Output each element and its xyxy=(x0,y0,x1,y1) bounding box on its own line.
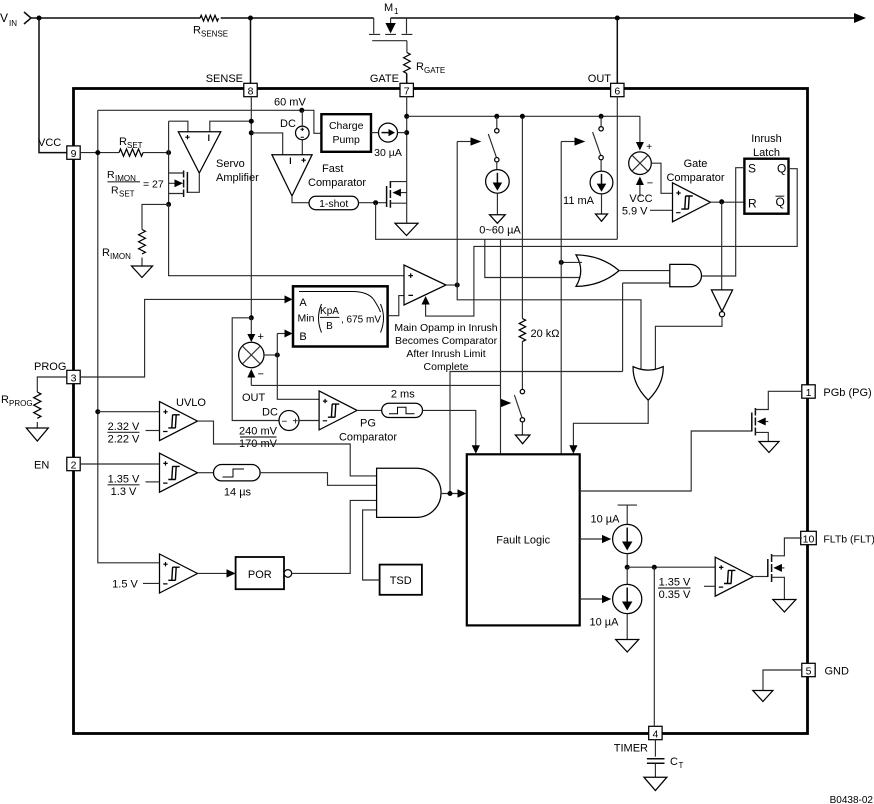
wire AND1 out to fault logic xyxy=(441,489,466,497)
and-gate AND2 xyxy=(670,264,702,286)
svg-text:R: R xyxy=(119,136,127,148)
node junction rail/sw1 xyxy=(494,114,499,119)
wire B input arrow xyxy=(277,330,292,338)
wire fast comparator out to 1-shot xyxy=(292,196,309,203)
ground GND pin xyxy=(753,691,773,702)
node junction SENSE/X1 xyxy=(249,315,254,320)
svg-text:DC: DC xyxy=(262,407,278,419)
and-gate AND1 enable xyxy=(377,468,441,517)
svg-text:10 µA: 10 µA xyxy=(591,514,621,526)
svg-text:V: V xyxy=(0,11,8,25)
svg-text:EN: EN xyxy=(34,460,49,472)
node junction SENSE/fastcomp tap xyxy=(249,130,254,135)
svg-text:B0438-02: B0438-02 xyxy=(830,795,874,804)
block TSD xyxy=(380,565,422,595)
svg-text:Min: Min xyxy=(298,313,315,325)
svg-text:R: R xyxy=(102,247,110,259)
svg-text:240 mV: 240 mV xyxy=(239,426,278,438)
svg-text:PROG: PROG xyxy=(9,399,33,408)
pin 5 GND xyxy=(802,663,849,677)
wire rail into X2 xyxy=(636,116,652,153)
wire 2ms out to fault logic xyxy=(423,410,480,453)
wire servo node to main opamp plus xyxy=(169,204,404,275)
or-gate OR2 xyxy=(576,255,619,287)
pin 10 FLTb xyxy=(801,531,874,545)
svg-text:GATE: GATE xyxy=(424,66,445,75)
svg-text:−: − xyxy=(647,178,653,190)
source 0-60uA current xyxy=(486,162,510,215)
node junction OUT top xyxy=(615,16,620,21)
wire EN out xyxy=(198,472,214,474)
svg-text:6: 6 xyxy=(614,85,620,97)
node junction SENSE/servo tap xyxy=(249,119,254,124)
svg-text:S: S xyxy=(748,162,756,176)
svg-text:1: 1 xyxy=(394,7,399,16)
svg-text:60 mV: 60 mV xyxy=(274,97,306,109)
svg-text:Servo: Servo xyxy=(216,158,245,170)
wire OR2 top input xyxy=(561,261,582,263)
resistor RSET xyxy=(80,136,168,156)
svg-text:TSD: TSD xyxy=(390,575,412,587)
svg-text:B: B xyxy=(299,331,306,343)
svg-text:7: 7 xyxy=(404,85,410,97)
pin 7 GATE xyxy=(370,73,414,97)
wire POR to AND1 xyxy=(292,500,377,573)
wire PG out to 2ms xyxy=(357,409,382,411)
svg-text:2.22 V: 2.22 V xyxy=(108,434,140,446)
svg-text:GND: GND xyxy=(825,666,850,678)
or-gate OR3 down xyxy=(633,367,663,401)
wire PROG to A input xyxy=(80,295,292,377)
svg-text:0.35 V: 0.35 V xyxy=(659,589,691,601)
svg-text:Comparator: Comparator xyxy=(666,172,724,184)
svg-text:, 675 mV: , 675 mV xyxy=(341,315,381,326)
one-shot 2ms xyxy=(382,389,423,418)
wire POR comp out arrow xyxy=(198,569,236,577)
wire FL out to PGb FET gate xyxy=(580,431,752,491)
block charge pump xyxy=(321,114,378,152)
svg-text:FLTb (FLT): FLTb (FLT) xyxy=(823,534,874,546)
wire 11mA ctl vertical xyxy=(560,142,562,455)
source 10uA charge xyxy=(591,505,642,567)
transistor PGb FET xyxy=(752,391,802,441)
svg-text:M: M xyxy=(384,2,393,14)
resistor RSENSE xyxy=(193,15,228,38)
svg-text:Latch: Latch xyxy=(753,147,780,159)
wire FL to 10uA top arrow xyxy=(580,535,612,543)
svg-text:1: 1 xyxy=(806,387,812,399)
node junction GATE/30uA xyxy=(404,130,409,135)
wire AND2 bottom input riser xyxy=(623,283,670,372)
wire M1 gate to RGATE xyxy=(406,41,408,53)
transistor servo mirror FET xyxy=(169,171,188,198)
IC boundary box xyxy=(74,89,808,734)
svg-text:Q: Q xyxy=(777,162,786,176)
svg-text:Main Opamp in Inrush: Main Opamp in Inrush xyxy=(394,322,497,334)
svg-text:C: C xyxy=(670,756,678,768)
wire gate drive rail xyxy=(407,115,640,117)
source DC offset 60mV xyxy=(280,110,309,154)
ground FLT FET xyxy=(773,600,796,613)
wire OR2 out to AND2 xyxy=(619,270,670,272)
footer code B0438-02 xyxy=(830,795,874,804)
one-shot 1-shot block xyxy=(309,196,387,210)
ground 20k switch xyxy=(515,435,530,444)
source 11mA current xyxy=(563,160,613,214)
svg-text:Inrush: Inrush xyxy=(751,133,782,145)
svg-text:Fast: Fast xyxy=(322,163,343,175)
wire B riser xyxy=(277,334,319,400)
svg-text:R: R xyxy=(1,394,9,406)
wire X1 out to B node xyxy=(264,354,277,356)
svg-text:1.3 V: 1.3 V xyxy=(111,486,137,498)
block fault logic xyxy=(467,454,580,625)
ground 0-60uA xyxy=(490,215,506,224)
latch inrush latch xyxy=(744,133,788,214)
svg-text:−: − xyxy=(258,369,264,381)
svg-text:GATE: GATE xyxy=(370,73,399,85)
pin 4 TIMER xyxy=(614,726,662,754)
svg-text:IN: IN xyxy=(9,19,17,28)
ground 11mA xyxy=(596,214,608,221)
switch inrush 0-60uA xyxy=(488,116,499,162)
svg-text:2: 2 xyxy=(71,459,77,471)
svg-text:Gate: Gate xyxy=(684,158,708,170)
svg-text:+: + xyxy=(293,417,299,428)
node junction DC tap xyxy=(299,108,304,113)
comparator gate comparator xyxy=(666,158,724,222)
wire SENSE vertical xyxy=(250,97,252,318)
svg-text:TIMER: TIMER xyxy=(614,743,648,755)
svg-text:0~60 µA: 0~60 µA xyxy=(479,225,521,237)
one-shot 14us xyxy=(214,465,261,499)
ground 10uA discharge xyxy=(616,640,639,653)
op-amp main opamp xyxy=(404,265,446,305)
svg-text:4: 4 xyxy=(652,728,658,740)
wire EN input xyxy=(80,463,159,465)
svg-text:R: R xyxy=(193,25,201,37)
svg-text:SENSE: SENSE xyxy=(206,73,243,85)
label PG thresholds 240/170 xyxy=(239,426,278,451)
svg-text:20 kΩ: 20 kΩ xyxy=(531,328,560,340)
op-amp servo amplifier xyxy=(178,132,259,184)
svg-text:2.32 V: 2.32 V xyxy=(108,421,140,433)
ground PGb FET xyxy=(759,442,779,453)
comparator POR 1.5V xyxy=(160,554,198,593)
wire UVLO out to AND1 xyxy=(198,421,377,476)
svg-text:T: T xyxy=(679,761,684,770)
svg-text:PGb (PG): PGb (PG) xyxy=(823,387,871,399)
svg-text:Comparator: Comparator xyxy=(308,177,366,189)
node junction VCC/RSET xyxy=(95,150,100,155)
transistor M1 xyxy=(369,2,412,41)
svg-text:Charge: Charge xyxy=(329,120,364,132)
wire opamp out xyxy=(446,284,457,286)
comparator PG xyxy=(319,391,397,444)
wire GATE pin vertical xyxy=(406,97,408,182)
svg-text:DC: DC xyxy=(280,118,296,130)
ground discharge FET xyxy=(395,223,418,235)
svg-text:11 mA: 11 mA xyxy=(563,195,595,207)
label UVLO thresholds xyxy=(108,421,160,446)
svg-text:+: + xyxy=(258,331,264,343)
node junction RSET/servo xyxy=(166,150,171,155)
svg-text:R: R xyxy=(416,61,424,73)
svg-text:Comparator: Comparator xyxy=(339,432,397,444)
svg-text:2 ms: 2 ms xyxy=(391,389,415,401)
resistor RGATE xyxy=(404,53,446,84)
node junction 1-shot/gate xyxy=(373,200,378,205)
block POR xyxy=(236,557,292,589)
node junction gatecomp out xyxy=(719,199,724,204)
svg-text:8: 8 xyxy=(248,85,254,97)
svg-text:After Inrush Limit: After Inrush Limit xyxy=(406,348,485,360)
ground RPROG xyxy=(26,428,48,441)
pin 2 EN xyxy=(34,457,80,471)
svg-text:OUT: OUT xyxy=(588,73,612,85)
svg-text:10: 10 xyxy=(803,533,815,545)
node junction VCC/UVLO tap xyxy=(95,409,100,414)
svg-text:Amplifier: Amplifier xyxy=(216,172,259,184)
wire 14us out to AND1 xyxy=(260,473,377,486)
wire gate comparator out to latch R xyxy=(709,201,744,203)
source DC offset PG xyxy=(262,407,319,431)
block min limit xyxy=(293,286,388,346)
svg-text:POR: POR xyxy=(248,569,272,581)
wire opamp ctl to sw1 arrow xyxy=(457,137,481,145)
wire fast comparator I input xyxy=(251,133,282,155)
wire OUT sense line xyxy=(242,385,501,404)
multiplier X2 xyxy=(629,152,652,175)
svg-text:1.5 V: 1.5 V xyxy=(112,579,138,591)
node junction opamp out xyxy=(455,283,460,288)
node junction timer/pin4 xyxy=(652,565,657,570)
wire timer to pin4 xyxy=(653,567,655,726)
wire TSD to AND1 xyxy=(363,510,380,580)
node junction OR2 top/FL ctl xyxy=(559,260,564,265)
svg-text:UVLO: UVLO xyxy=(176,397,206,409)
wire VIN top rail xyxy=(31,13,866,23)
label 0-60uA xyxy=(479,225,521,237)
svg-text:A: A xyxy=(299,297,307,309)
wire 1shot node to pin6 xyxy=(376,203,618,240)
svg-text:VCC: VCC xyxy=(38,137,61,149)
transistor FLT FET xyxy=(754,538,801,599)
label EN thresholds xyxy=(108,474,160,499)
node junction B riser xyxy=(275,353,280,358)
wire AND1 out riser to AND2 xyxy=(450,372,623,494)
comparator FLT xyxy=(715,557,753,596)
resistor RIMON xyxy=(102,204,169,266)
svg-text:= 27: = 27 xyxy=(143,179,164,191)
svg-text:R: R xyxy=(748,197,757,211)
source 30uA current xyxy=(374,123,407,159)
wire FL ctl to sw2 arrow xyxy=(561,137,585,145)
svg-text:Q: Q xyxy=(776,195,785,209)
svg-text:SET: SET xyxy=(119,190,135,199)
switch 20k timer xyxy=(514,389,524,434)
multiplier X1 xyxy=(239,342,264,367)
svg-text:1.35 V: 1.35 V xyxy=(659,577,691,589)
svg-text:Pump: Pump xyxy=(332,134,360,146)
label FLT thresholds xyxy=(658,577,715,602)
svg-text:Fault Logic: Fault Logic xyxy=(496,535,550,547)
node junction VIN/VCC xyxy=(37,16,42,21)
wire servo left input loop xyxy=(169,121,188,204)
wire min out to opamp minus xyxy=(388,296,404,316)
ground CT xyxy=(644,777,667,790)
svg-text:+: + xyxy=(646,142,652,153)
svg-text:1-shot: 1-shot xyxy=(319,198,348,210)
wire pin6 internal drop xyxy=(616,97,618,240)
comparator EN xyxy=(160,453,198,492)
wire inverter out to OR3 right input xyxy=(655,317,722,372)
svg-text:PG: PG xyxy=(360,418,376,430)
wire latch Q feedback to main opamp xyxy=(422,169,798,316)
node junction GATE/rail xyxy=(404,114,409,119)
capacitor CT xyxy=(647,740,684,777)
wire UVLO plus input xyxy=(98,411,160,413)
wire FL ctl sw3 xyxy=(501,239,512,454)
wire opamp out up to sw1 ctl xyxy=(456,142,458,286)
comparator UVLO xyxy=(160,397,207,441)
svg-text:SENSE: SENSE xyxy=(201,30,228,39)
inverter gate latch xyxy=(711,202,732,317)
pin 3 PROG xyxy=(34,361,80,384)
node junction rail/sw2 xyxy=(599,114,604,119)
wire SENSE drop xyxy=(250,18,252,84)
svg-text:R: R xyxy=(111,185,119,197)
wire servo right input from SENSE xyxy=(210,121,252,132)
svg-text:3: 3 xyxy=(71,372,77,384)
svg-text:30 µA: 30 µA xyxy=(374,147,402,159)
ground RIMON xyxy=(132,266,153,278)
label main opamp annotation xyxy=(394,322,497,373)
transistor gate discharge FET xyxy=(387,181,407,223)
pin 9 VCC xyxy=(38,137,80,160)
node 60mV label xyxy=(274,97,306,109)
svg-text:IMON: IMON xyxy=(110,252,131,261)
wire GND pin to ground xyxy=(763,670,802,690)
svg-text:1.35 V: 1.35 V xyxy=(108,474,140,486)
label RIMON/RSET=27 formula xyxy=(107,169,164,199)
svg-text:5.9 V: 5.9 V xyxy=(622,206,648,218)
wire OR2 bottom input riser xyxy=(485,239,582,277)
pin 8 SENSE xyxy=(206,73,257,97)
resistor 20k xyxy=(519,116,559,389)
wire opamp out to OR3 left input xyxy=(457,285,641,372)
wire VIN to VCC pin 9 xyxy=(39,18,67,153)
source VCC-5.9 into X2 xyxy=(622,177,673,218)
wire FL to 10uA bottom arrow xyxy=(580,595,612,603)
pin 6 OUT xyxy=(588,73,624,97)
wire VCC sense vertical xyxy=(98,110,160,563)
svg-text:B: B xyxy=(326,321,333,332)
svg-text:Becomes Comparator: Becomes Comparator xyxy=(395,335,498,347)
wire X1 minus input from OUT line xyxy=(247,369,264,386)
svg-text:PROG: PROG xyxy=(34,361,66,373)
pin 1 PGb xyxy=(802,385,872,399)
node VIN label xyxy=(0,11,31,28)
wire timer node to comp xyxy=(627,566,715,568)
svg-text:−: − xyxy=(282,417,288,428)
node junction rail/20k xyxy=(520,114,525,119)
wire latch S input xyxy=(702,168,745,276)
svg-text:10 µA: 10 µA xyxy=(590,617,620,629)
resistor RPROG xyxy=(1,377,67,428)
source 10uA discharge xyxy=(590,567,642,639)
svg-text:OUT: OUT xyxy=(242,392,266,404)
svg-text:5: 5 xyxy=(806,665,812,677)
wire SENSE node to DC2 xyxy=(232,318,279,421)
node junction RSENSE/SENSE xyxy=(248,16,253,21)
svg-text:9: 9 xyxy=(71,148,77,160)
wire internal 60mV rail to charge pump xyxy=(98,110,322,133)
svg-text:SET: SET xyxy=(127,141,143,150)
wire X1 plus input xyxy=(247,318,264,343)
label 1.5V threshold xyxy=(112,579,159,591)
svg-text:KpA: KpA xyxy=(320,306,339,317)
svg-text:14 µs: 14 µs xyxy=(224,487,252,499)
wire OUT drop xyxy=(616,18,618,84)
wire servo output to mirror FET gate xyxy=(187,173,199,192)
svg-text:VCC: VCC xyxy=(629,193,652,205)
node junction timer node xyxy=(625,565,630,570)
svg-text:R: R xyxy=(107,169,115,181)
comparator fast comparator xyxy=(272,155,367,196)
wire X2 out to gate comparator xyxy=(651,163,672,193)
node junction servo/RIMON xyxy=(166,202,171,207)
node junction AND1 out xyxy=(448,491,453,496)
switch 11mA xyxy=(593,116,604,160)
wire OR3 out to fault logic xyxy=(569,400,648,454)
